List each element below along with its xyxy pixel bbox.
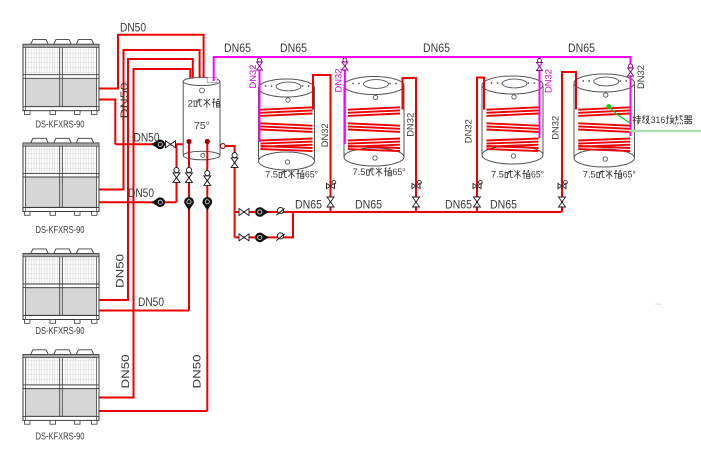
label DN50 unit3 line xyxy=(138,297,164,309)
svg-text:7.5: 7.5 xyxy=(265,170,278,180)
pump P6 branch B xyxy=(255,232,269,242)
svg-text:DS-KFXRS-90: DS-KFXRS-90 xyxy=(36,432,85,443)
label DN65 main 4 xyxy=(490,200,517,212)
heat pump unit 1 xyxy=(23,40,99,115)
label DN50 pump line 1 xyxy=(134,133,160,145)
svg-text:DN65: DN65 xyxy=(423,43,450,55)
svg-text:DS-KFXRS-90: DS-KFXRS-90 xyxy=(36,225,85,236)
heating coil inside tank 1 xyxy=(261,107,313,151)
isolating valve tank1 drop xyxy=(327,181,336,189)
label 2 DS-KFXRS-90 xyxy=(36,225,85,236)
heating coil inside tank 4 xyxy=(578,107,630,151)
wire balance branch xyxy=(176,144,178,202)
label 1 DS-KFXRS-90 xyxy=(36,120,85,131)
label tank 2 xyxy=(353,167,406,177)
label DN50 risers xyxy=(119,83,131,119)
wire tank1 coil supply DN32 xyxy=(313,75,331,212)
valve tank4 drop xyxy=(559,197,566,207)
label DN50 riser4 xyxy=(120,355,132,389)
svg-text:DN65: DN65 xyxy=(490,200,517,212)
buffer tank 2t xyxy=(183,77,220,160)
svg-text:7.5: 7.5 xyxy=(491,170,504,180)
storage tank 1 7.5t xyxy=(259,79,315,170)
heat pump unit 2 xyxy=(23,138,99,215)
nozzle dip tube 2 xyxy=(205,139,210,144)
label 3 DS-KFXRS-90 xyxy=(36,326,85,337)
valve tank1 return xyxy=(257,58,263,70)
wire supply riser unit1 to tank top DN50 xyxy=(99,35,204,89)
valve tank3 drop xyxy=(474,197,481,207)
label DN50 top xyxy=(120,23,146,35)
wire supply riser unit4 to tank top DN50 xyxy=(99,69,190,398)
svg-text:DN32: DN32 xyxy=(636,65,647,89)
wire tank3 coil return DN32 xyxy=(539,57,541,138)
svg-text:DN50: DN50 xyxy=(192,355,204,389)
label DN32 tank4 return xyxy=(636,65,647,89)
svg-text:DN32: DN32 xyxy=(550,116,561,140)
wire tank outlet right xyxy=(220,146,235,237)
storage tank 3 7.5t xyxy=(482,76,543,164)
heating coil inside tank 2 xyxy=(348,107,400,151)
check valve branch A xyxy=(276,207,284,215)
label DN65 main 1 xyxy=(295,200,322,212)
wire tank4 coil supply DN32 xyxy=(562,72,576,212)
svg-text:DN50: DN50 xyxy=(138,297,164,309)
isolating valve tank4 drop xyxy=(558,181,567,189)
svg-text:316: 316 xyxy=(651,115,666,125)
wire tank2 coil return DN32 xyxy=(344,57,346,144)
wire tank dip tube 2 down to unit4 xyxy=(206,141,208,412)
svg-text:DS-KFXRS-90: DS-KFXRS-90 xyxy=(36,120,85,131)
label DN65 header 1 xyxy=(224,43,251,55)
svg-text:DN50: DN50 xyxy=(119,83,131,119)
label DN50 riser3 xyxy=(115,254,127,288)
wire pump line 1 DN50 xyxy=(115,143,189,145)
svg-text:DN50: DN50 xyxy=(128,188,154,200)
label tank 3 xyxy=(491,170,544,180)
label DN32 tank1 supply xyxy=(320,123,331,147)
svg-text:DN32: DN32 xyxy=(248,65,259,89)
svg-text:DN32: DN32 xyxy=(405,113,416,137)
label DN32 tank2 return xyxy=(333,69,344,93)
label tank 1 xyxy=(265,170,318,180)
storage tank 4 7.5t xyxy=(574,74,635,167)
svg-text:DN65: DN65 xyxy=(445,200,472,212)
label DN65 header 4 xyxy=(568,43,595,55)
wire pump group branch B xyxy=(235,212,293,237)
stray mark xyxy=(655,304,662,305)
wire unit1 lower connection down xyxy=(99,100,115,145)
label DN50 pump line 2 xyxy=(128,188,154,200)
svg-text:DN32: DN32 xyxy=(320,123,331,147)
wire pump line 2 DN50 xyxy=(99,201,177,203)
wire unit4 lower connection xyxy=(99,410,207,412)
svg-text:65°: 65° xyxy=(393,167,406,177)
svg-text:7.5: 7.5 xyxy=(353,167,366,177)
label DN65 main 2 xyxy=(355,200,382,212)
wire tank1 coil return DN32 xyxy=(259,57,261,142)
svg-text:DN65: DN65 xyxy=(295,200,322,212)
isolating valve tank3 drop xyxy=(473,181,482,189)
svg-text:65°: 65° xyxy=(623,170,636,180)
heating coil inside tank 3 xyxy=(487,107,539,151)
svg-text:DN65: DN65 xyxy=(355,200,382,212)
label DN65 header 2 xyxy=(280,43,307,55)
wire tank3 coil supply DN32 xyxy=(477,78,484,213)
label DN32 tank2 supply xyxy=(405,113,416,137)
wire dip tube 2 inside tank xyxy=(206,141,208,163)
label DN65 main 3 xyxy=(445,200,472,212)
valve branch A inlet xyxy=(239,209,249,216)
wire unit3 lower connection xyxy=(99,310,189,312)
label DN32 tank1 return xyxy=(248,65,259,89)
valve on balance branch xyxy=(173,168,180,183)
storage tank 2 7.5t xyxy=(344,77,404,167)
label special 316 heat exchanger xyxy=(633,115,692,125)
valve tank3 return xyxy=(537,59,543,71)
label 4 DS-KFXRS-90 xyxy=(36,432,85,443)
heat pump unit 4 xyxy=(23,350,99,424)
label DN32 tank4 supply xyxy=(550,116,561,140)
label tank 4 xyxy=(583,170,636,180)
svg-text:DN65: DN65 xyxy=(568,43,595,55)
heat pump unit 3 xyxy=(23,249,99,323)
svg-text:DN50: DN50 xyxy=(120,23,146,35)
nozzle tank right xyxy=(220,144,225,149)
label DN32 tank3 supply xyxy=(464,119,475,143)
svg-text:DN32: DN32 xyxy=(464,119,475,143)
nozzle dip tube 1 xyxy=(186,139,191,144)
svg-text:DN50: DN50 xyxy=(115,254,127,288)
isolating valve tank2 drop xyxy=(412,181,421,189)
label DN50 dip2 line xyxy=(192,355,204,389)
wire return header DN65 magenta xyxy=(214,57,631,136)
svg-text:DN32: DN32 xyxy=(543,69,554,93)
svg-text:65°: 65° xyxy=(305,170,318,180)
label DN65 header 3 xyxy=(423,43,450,55)
pump P2 xyxy=(151,197,165,207)
pump P3 dip tube 1 xyxy=(184,197,194,211)
valve dip tube 1 xyxy=(186,168,193,183)
pump P5 branch A xyxy=(255,207,269,217)
valve tank1 drop xyxy=(327,197,334,207)
wire supply riser unit3 to tank top DN50 xyxy=(99,59,193,300)
valve branch B inlet xyxy=(239,234,249,241)
wire supply riser unit2 to tank top DN50 xyxy=(99,50,200,190)
svg-text:65°: 65° xyxy=(531,170,544,180)
wire tank2 coil supply DN32 xyxy=(403,78,417,212)
valve tank2 return xyxy=(342,58,348,70)
valve dip tube 2 xyxy=(204,171,211,186)
annotation marker heat exchanger xyxy=(606,104,629,123)
pump P1 xyxy=(151,139,165,149)
label buffer tank temperature 75 xyxy=(194,120,210,132)
label buffer tank 2t xyxy=(188,98,220,108)
wire tank dip tube 1 down to unit3 xyxy=(188,141,190,311)
valve after pump P1 xyxy=(166,141,176,148)
svg-text:DN65: DN65 xyxy=(280,43,307,55)
check valve branch B xyxy=(276,233,284,241)
pump P4 dip tube 2 xyxy=(202,197,212,211)
svg-text:75°: 75° xyxy=(194,120,210,132)
annotation underline xyxy=(630,130,701,132)
valve tank2 drop xyxy=(413,197,420,207)
wire main header DN65 xyxy=(235,211,562,213)
svg-text:2: 2 xyxy=(188,98,194,108)
valve tank4 return xyxy=(628,64,634,76)
svg-text:DN50: DN50 xyxy=(134,133,160,145)
svg-text:DS-KFXRS-90: DS-KFXRS-90 xyxy=(36,326,85,337)
label DN32 tank3 return xyxy=(543,69,554,93)
wire dip tube 1 inside tank xyxy=(188,141,190,163)
svg-text:7.5: 7.5 xyxy=(583,170,596,180)
valve tank outlet xyxy=(231,153,238,168)
svg-text:DN32: DN32 xyxy=(333,69,344,93)
svg-text:DN50: DN50 xyxy=(120,355,132,389)
svg-text:DN65: DN65 xyxy=(224,43,251,55)
